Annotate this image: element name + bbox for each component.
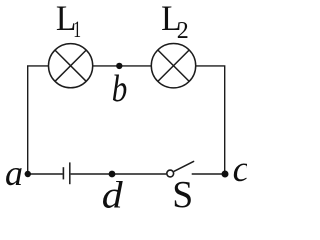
- label L2: [161, 0, 189, 44]
- wire d to switch: [112, 173, 166, 175]
- node b: [116, 63, 122, 69]
- svg-text:2: 2: [177, 18, 189, 44]
- svg-text:a: a: [5, 153, 23, 193]
- node d: [109, 171, 116, 178]
- switch S: [167, 161, 194, 177]
- wire battery to d: [71, 173, 112, 175]
- svg-text:S: S: [172, 175, 193, 208]
- wire left rail with top-left corner: [28, 66, 49, 174]
- svg-text:1: 1: [73, 17, 81, 43]
- wire between L1 and L2 through node b: [93, 65, 152, 67]
- node c: [222, 171, 229, 178]
- svg-text:b: b: [112, 67, 128, 110]
- node a: [25, 171, 31, 177]
- wire top-right corner and right rail: [196, 66, 225, 174]
- svg-text:c: c: [233, 149, 247, 190]
- svg-text:d: d: [102, 173, 124, 208]
- wire switch to c: [192, 173, 225, 175]
- label L1: [56, 0, 81, 43]
- wire a to battery: [28, 173, 63, 175]
- battery cell: [63, 162, 69, 184]
- lamp L2: [151, 43, 195, 87]
- lamp L1: [49, 44, 93, 88]
